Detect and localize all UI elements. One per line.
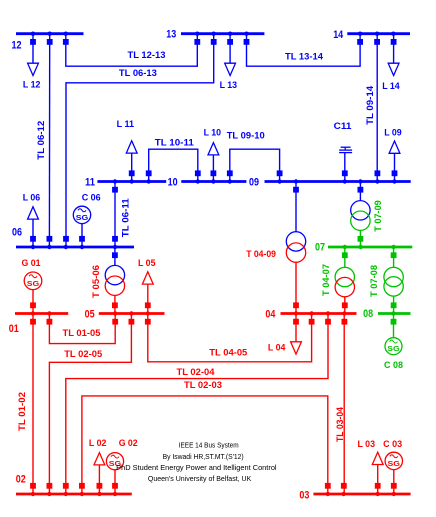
svg-text:L 03: L 03	[358, 439, 376, 450]
svg-text:G 01: G 01	[22, 258, 42, 269]
svg-text:11: 11	[85, 177, 95, 189]
svg-text:L 05: L 05	[138, 258, 156, 269]
svg-text:TL 04-05: TL 04-05	[209, 348, 248, 359]
svg-text:SG: SG	[76, 213, 89, 222]
svg-text:L 04: L 04	[268, 342, 286, 353]
svg-text:T 07-09: T 07-09	[373, 200, 384, 232]
svg-text:TL 09-10: TL 09-10	[227, 131, 265, 142]
svg-text:04: 04	[265, 309, 276, 321]
svg-text:TL 12-13: TL 12-13	[128, 50, 166, 61]
bus 07	[315, 241, 412, 253]
svg-text:T 04-07: T 04-07	[321, 264, 332, 296]
wire TL 12-13	[63, 34, 200, 66]
svg-text:T 05-06: T 05-06	[91, 265, 102, 298]
svg-text:07: 07	[315, 241, 325, 253]
load L 02	[89, 438, 107, 494]
bus 09	[249, 177, 411, 189]
svg-text:IEEE 14 Bus System: IEEE 14 Bus System	[179, 440, 239, 449]
svg-text:TL 02-04: TL 02-04	[177, 367, 216, 378]
bus 02	[16, 474, 132, 496]
svg-text:SG: SG	[388, 459, 401, 468]
generator G 02	[106, 438, 137, 494]
load L 04	[268, 314, 302, 355]
bus 13	[166, 29, 264, 41]
generator C 08	[384, 314, 403, 371]
load L 05	[138, 258, 156, 314]
svg-text:T 04-09: T 04-09	[246, 249, 276, 260]
svg-text:C 08: C 08	[384, 360, 403, 371]
bus 03	[299, 490, 410, 502]
wire TL 13-14	[244, 34, 363, 66]
bus 04	[265, 309, 356, 321]
svg-text:TL 03-04: TL 03-04	[335, 406, 346, 442]
bus 12	[12, 32, 84, 52]
transformer T 07-08	[369, 247, 403, 314]
svg-text:L 13: L 13	[220, 80, 238, 91]
svg-text:10: 10	[168, 177, 178, 189]
wire TL 04-05	[145, 314, 315, 362]
svg-text:01: 01	[9, 323, 19, 335]
svg-text:L 12: L 12	[23, 80, 41, 91]
svg-text:PhD Student Energy Power and I: PhD Student Energy Power and Itelligent …	[116, 463, 277, 472]
svg-text:L 02: L 02	[89, 438, 107, 449]
load L 11	[117, 119, 138, 181]
load L 09	[384, 128, 402, 182]
transformer T 05-06	[91, 247, 125, 314]
transformer T 04-07	[321, 247, 354, 314]
svg-text:C 03: C 03	[383, 439, 402, 450]
wire TL 09-10	[227, 131, 283, 182]
load L 13	[220, 34, 238, 91]
svg-text:SG: SG	[27, 279, 40, 288]
bus 08	[363, 308, 410, 320]
svg-text:TL 06-13: TL 06-13	[119, 68, 157, 79]
wire TL 02-03	[79, 380, 331, 494]
svg-text:C11: C11	[334, 121, 353, 132]
wire TL 06-12	[36, 34, 53, 247]
wire TL 03-04	[335, 314, 347, 495]
wire TL 02-05	[47, 314, 135, 495]
wire TL 02-04	[63, 314, 331, 495]
svg-text:06: 06	[12, 226, 22, 238]
load L 12	[23, 34, 41, 91]
svg-text:Queen's University of Belfast,: Queen's University of Belfast, UK	[148, 474, 251, 483]
svg-text:09: 09	[249, 177, 259, 189]
svg-text:03: 03	[299, 490, 309, 502]
svg-text:TL 01-05: TL 01-05	[63, 328, 102, 339]
generator C 06	[73, 192, 100, 247]
wire TL 01-05	[47, 314, 119, 344]
bus 10	[168, 177, 247, 189]
capacitor C11	[334, 121, 353, 182]
bus 11	[85, 177, 166, 189]
svg-text:C 06: C 06	[82, 192, 101, 203]
load L 14	[382, 34, 400, 92]
bus 05	[85, 308, 165, 320]
svg-text:05: 05	[85, 308, 95, 320]
svg-text:TL 01-02: TL 01-02	[17, 392, 28, 431]
title text block	[116, 440, 277, 483]
svg-text:14: 14	[333, 29, 344, 41]
svg-text:13: 13	[166, 29, 176, 41]
svg-text:By Iswadi HR,ST.MT.(S'12): By Iswadi HR,ST.MT.(S'12)	[163, 452, 244, 461]
generator C 03	[383, 439, 402, 494]
svg-text:L 06: L 06	[23, 193, 41, 204]
svg-text:SG: SG	[387, 344, 400, 353]
generator G 01	[22, 258, 42, 314]
load L 10	[204, 127, 222, 181]
svg-text:TL 09-14: TL 09-14	[365, 85, 376, 125]
svg-text:L 11: L 11	[117, 119, 135, 130]
svg-text:02: 02	[16, 474, 26, 486]
svg-text:L 09: L 09	[384, 128, 402, 139]
svg-text:TL 02-05: TL 02-05	[64, 349, 103, 360]
load L 06	[23, 193, 41, 247]
wire TL 06-11	[112, 182, 131, 248]
bus 14	[333, 29, 410, 41]
svg-text:G 02: G 02	[119, 438, 138, 449]
svg-text:08: 08	[363, 308, 373, 320]
transformer T 07-09	[351, 182, 385, 248]
svg-text:TL 13-14: TL 13-14	[285, 51, 324, 62]
svg-text:12: 12	[12, 39, 22, 51]
load L 03	[358, 439, 384, 494]
bus 01	[9, 311, 68, 335]
svg-text:L 10: L 10	[204, 127, 222, 138]
wire TL 06-13	[63, 34, 217, 247]
svg-text:TL 10-11: TL 10-11	[155, 137, 195, 148]
svg-text:L 14: L 14	[382, 81, 400, 92]
transformer T 04-09	[246, 182, 305, 314]
svg-text:TL 02-03: TL 02-03	[184, 380, 222, 391]
bus 06	[12, 226, 134, 249]
wire TL 01-02	[17, 314, 36, 495]
svg-text:T 07-08: T 07-08	[369, 265, 380, 297]
svg-text:TL 06-11: TL 06-11	[121, 198, 132, 238]
wire TL 09-14	[365, 34, 380, 182]
svg-text:TL 06-12: TL 06-12	[36, 121, 47, 160]
wire TL 10-11	[146, 137, 201, 181]
